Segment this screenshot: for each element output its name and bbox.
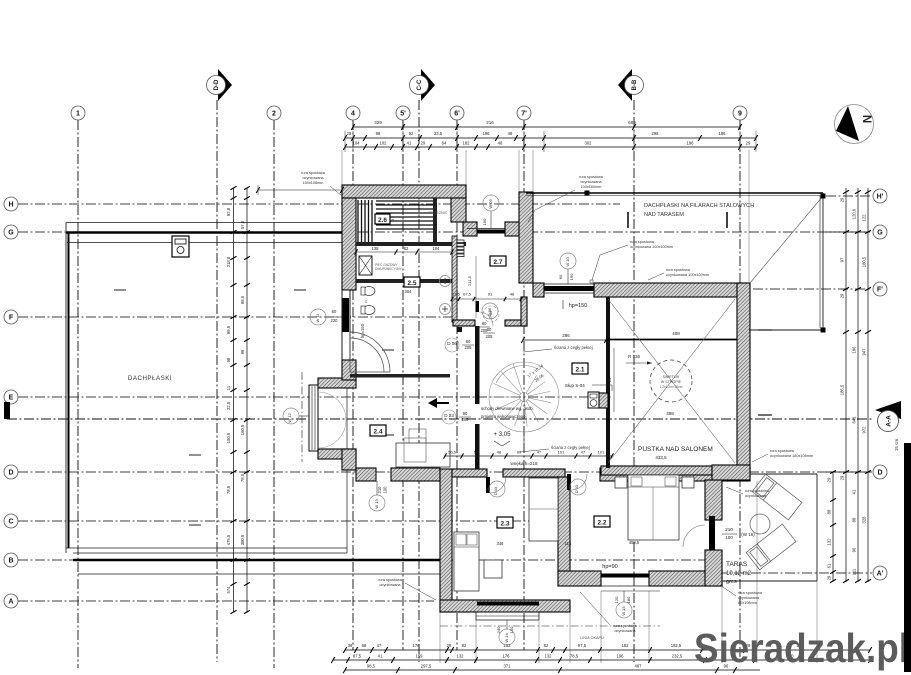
window tag W10 [560,253,576,269]
door leaf 2.2 [567,474,571,490]
svg-text:296: 296 [562,333,570,338]
svg-text:60: 60 [332,309,337,314]
svg-text:Sieradzak.pl: Sieradzak.pl [694,625,909,671]
svg-text:150,5: 150,5 [226,432,231,443]
room 2.2 label box [594,516,610,527]
svg-text:LINIA OKAPU: LINIA OKAPU [580,636,604,640]
svg-text:487: 487 [635,664,643,669]
room 2.7 dims [452,298,527,300]
shower south partition [437,242,466,246]
nightstand 2.3 [484,560,502,578]
svg-text:29: 29 [421,141,426,146]
section marker B-B [618,69,632,101]
svg-text:132: 132 [827,538,832,546]
svg-text:88: 88 [827,509,832,514]
svg-text:rura spustowa: rura spustowa [579,175,604,179]
svg-text:220: 220 [331,318,339,323]
svg-text:NAD TARASEM: NAD TARASEM [644,212,684,218]
svg-text:159: 159 [416,654,424,659]
svg-text:B-B: B-B [632,79,638,90]
roof chimney [172,236,189,257]
svg-text:2.2: 2.2 [597,520,606,527]
svg-text:196: 196 [617,654,625,659]
svg-text:433,5: 433,5 [655,455,667,460]
svg-text:120: 120 [614,596,619,603]
svg-text:122: 122 [862,214,867,222]
wall 2.7 north-east piece [505,222,519,236]
svg-text:196: 196 [719,131,727,136]
svg-text:205: 205 [465,345,473,350]
sauna 2.6 label box [375,214,390,224]
svg-text:101: 101 [558,450,565,455]
bay window 2.4 [309,385,318,451]
svg-text:wnęka h=218: wnęka h=218 [511,461,538,466]
svg-text:210: 210 [725,527,733,532]
room 2.7 label box [490,256,506,266]
room 2.5 label box [404,277,420,287]
door D03 tag 2.3 [489,481,505,497]
svg-text:2.1: 2.1 [575,367,584,374]
svg-text:328: 328 [862,516,867,524]
svg-text:205: 205 [486,334,494,339]
wall 2.4 north [318,378,356,388]
svg-text:D 06: D 06 [487,307,492,316]
door arc terrace [683,525,705,547]
axis H horizontal line [18,203,620,205]
svg-text:ocynkowana: ocynkowana [302,176,324,180]
svg-text:D: D [877,470,882,477]
svg-text:132: 132 [545,654,553,659]
svg-text:W 10: W 10 [565,257,570,267]
window W09 black bar [467,228,515,230]
svg-text:41: 41 [378,654,383,659]
svg-text:150x108mm: 150x108mm [303,181,324,185]
svg-text:78,5: 78,5 [570,654,579,659]
hall west wall [475,326,480,404]
svg-text:641: 641 [852,416,857,424]
svg-text:475,5: 475,5 [226,534,231,545]
extension lines bottom to chains [439,612,441,663]
sauna 2.6 bench slats vertical [357,200,359,242]
svg-text:458,5: 458,5 [629,540,640,545]
axis 1 vertical line [77,120,79,668]
axis H&#39; right circle [873,189,887,203]
axis F&#39; right line [753,288,872,290]
svg-text:210: 210 [377,486,382,494]
svg-text:29: 29 [347,131,352,136]
svg-text:57,8: 57,8 [240,220,245,229]
room 2.3 label box [497,517,513,528]
window bay 2.3 south [477,602,539,606]
svg-text:296: 296 [652,131,660,136]
svg-text:11: 11 [226,385,231,390]
extension lines top from building [341,150,343,185]
pustka west wall [606,297,610,468]
svg-text:48: 48 [510,292,515,297]
svg-text:90: 90 [517,450,522,455]
axis 4 vertical line [352,120,354,650]
svg-text:ŚWIETLIK: ŚWIETLIK [663,374,680,379]
svg-text:92,8: 92,8 [226,207,231,216]
svg-text:F: F [9,315,14,322]
pustka skylight dashed circle [650,360,692,402]
svg-text:G: G [8,230,14,237]
svg-text:9: 9 [738,111,742,118]
terrace lounge chair 2 [746,524,796,570]
terrace round table [750,514,770,534]
terrace north-west corner wall [712,465,750,480]
room 2.1 label box [572,363,588,374]
window tag W14 [499,629,515,645]
entry arrow [428,398,449,408]
dim 66 small [613,348,615,412]
wall south of 2.4 with door [356,468,376,481]
room 2.4 dresser [396,443,450,467]
svg-text:ocynkowana 100x100mm: ocynkowana 100x100mm [666,273,709,277]
axis 1 circle [71,106,85,120]
svg-text:2.7: 2.7 [493,259,502,266]
svg-text:180,5: 180,5 [862,256,867,267]
left dimension chain [233,188,235,612]
svg-text:(W 16): (W 16) [741,532,755,537]
svg-text:D 03: D 03 [575,485,579,493]
axis E horizontal line [18,396,612,398]
axis 2 vertical line [273,120,275,668]
wall west with window W11 [342,290,350,362]
terrace outline [750,473,817,475]
svg-text:87,5: 87,5 [353,654,362,659]
bottom dimension chain row2 [333,659,870,661]
wall along F-prime west piece [533,283,544,297]
furnace with X [359,256,372,275]
svg-text:5': 5' [400,111,406,118]
svg-text:190: 190 [482,218,487,225]
svg-text:29: 29 [827,575,832,580]
section marker D-D [218,69,232,101]
svg-text:hp=150: hp=150 [569,303,588,309]
axis F circle [4,310,18,324]
svg-text:W 09: W 09 [488,199,493,209]
svg-text:PUSTKA NAD SALONEM: PUSTKA NAD SALONEM [638,446,713,453]
right dimension chains [845,188,847,582]
axis 9 circle [733,106,747,120]
svg-text:380,5: 380,5 [240,534,245,545]
svg-text:574: 574 [226,586,231,594]
axis B circle [4,553,18,567]
svg-text:41: 41 [852,489,857,494]
wall piece east of north wall [451,198,466,222]
svg-text:rura spustowa: rura spustowa [738,591,763,595]
east partition of 2.5 zone [452,236,457,322]
door leaf 2.3 [486,477,490,493]
wall 2.3 west [440,469,452,612]
axis G right line [826,231,872,233]
svg-text:205: 205 [462,417,470,422]
svg-text:132: 132 [457,654,465,659]
svg-text:689: 689 [628,120,636,125]
top dimension chain row2 [345,137,756,139]
svg-text:ocynkowana 100x100mm: ocynkowana 100x100mm [630,245,673,249]
small black block below wall [457,327,462,332]
axis A&#39; right line [700,572,872,574]
black bar right edge [904,443,911,672]
eaves line bottom [440,625,660,627]
svg-text:rura spustowa: rura spustowa [613,624,638,628]
section marker C-C [421,69,435,101]
axis A circle [4,594,18,608]
svg-text:216: 216 [486,120,494,125]
room 2.4 label box [370,425,386,436]
wall west of hall south [342,449,356,470]
section marker A-A arrow [875,401,901,419]
bottom dimension chain row1 [345,649,870,651]
svg-text:104: 104 [433,246,441,251]
svg-text:33,5: 33,5 [434,131,443,136]
axis G horizontal line [18,231,868,233]
window tag W09 [483,195,499,211]
svg-text:64: 64 [442,141,447,146]
svg-text:29: 29 [840,197,845,202]
door leaf D06 [476,301,480,312]
radiator circles with plus [440,276,451,287]
svg-text:101: 101 [474,450,481,455]
svg-text:B: B [8,558,13,565]
svg-text:160,5: 160,5 [240,424,245,435]
washing machine and column [588,392,599,408]
svg-text:2.5: 2.5 [407,280,416,287]
pustka north line [606,339,737,341]
terrace lounge chair 1 [752,474,802,520]
svg-text:196: 196 [687,141,695,146]
axis D circle [4,465,18,479]
svg-text:182,5: 182,5 [671,643,682,648]
corner bathtub [350,332,390,372]
roof pillar marks [585,191,590,196]
spiral stair [489,362,559,432]
svg-text:947: 947 [862,348,867,356]
svg-text:176: 176 [503,654,511,659]
axis A&#39; right circle [873,566,887,580]
svg-text:371: 371 [504,664,512,669]
wall 2.3 north east piece [503,469,565,477]
svg-text:11,5: 11,5 [452,292,460,297]
axis 7&#39; vertical line [523,120,525,650]
svg-text:61: 61 [827,563,832,568]
svg-text:408: 408 [672,331,680,336]
radiator ladder [457,240,464,243]
svg-text:100: 100 [383,486,388,494]
axis H circle [4,197,18,211]
svg-text:97,5: 97,5 [578,643,587,648]
axis F&#39; right circle [873,282,887,296]
window W16 black bar [709,516,715,550]
axis 2 circle [267,106,281,120]
wall 2.2 south east piece [649,571,722,586]
svg-text:rura spustowa: rura spustowa [666,268,691,272]
axis 6&#39; circle [450,106,464,120]
svg-text:99,5: 99,5 [226,325,231,334]
svg-text:138: 138 [372,246,380,251]
wall east of pustka [737,283,750,470]
wall south of hall east piece [391,468,440,481]
svg-text:29: 29 [827,477,832,482]
roof slope tick marks [189,454,201,456]
top dimension chain row3 [345,146,756,148]
svg-text:C: C [8,519,13,526]
svg-text:+ 3,05: + 3,05 [494,432,512,438]
terrace west wall [705,480,722,520]
svg-text:67,5: 67,5 [463,292,472,297]
svg-text:120,6: 120,6 [852,208,857,219]
door tag D06 stairs [482,303,498,319]
svg-text:22,5: 22,5 [226,401,231,410]
pustka dim 408 [610,339,737,341]
bath room partition south [350,374,450,378]
flat roof outline [66,222,345,224]
wall west above bay [342,360,356,380]
wall 2.2 south west piece [558,571,601,586]
section line C-C [418,100,420,662]
dim 296 left of pustka [523,339,606,341]
svg-text:2.6: 2.6 [378,217,387,224]
svg-text:29: 29 [840,475,845,480]
svg-text:91: 91 [488,292,493,297]
svg-text:F': F' [877,287,883,294]
pustka dim 388 [610,417,735,419]
bed 2.3 [454,532,479,591]
partition below corridor [356,279,452,283]
room 2.4 wardrobe dashed [409,429,426,449]
svg-text:1: 1 [76,111,80,118]
svg-text:hp=90: hp=90 [602,564,617,570]
wall band below W10 corner [521,297,527,326]
svg-text:A': A' [877,571,884,578]
svg-text:48: 48 [508,131,513,136]
door D03 tag 2.2 [570,479,586,495]
svg-text:ocynkowana: ocynkowana [738,596,760,600]
axis A horizontal line [18,600,434,602]
axis 4 circle [346,106,360,120]
svg-text:104: 104 [353,141,361,146]
axis D right circle [873,465,887,479]
svg-text:H': H' [877,194,884,201]
svg-text:schody drewniane wg. osob.: schody drewniane wg. osob. [481,406,534,411]
sauna south wall partition [356,242,438,246]
bidet [363,306,375,315]
pustka cross diagonal 1 [608,299,735,463]
svg-text:102: 102 [380,141,388,146]
roof over terrace diagonal [750,196,823,283]
svg-text:rura spustowa: rura spustowa [630,240,655,244]
svg-text:115: 115 [565,541,572,546]
section line D-D [216,100,218,662]
svg-text:DWUFUNKCYJNY: DWUFUNKCYJNY [375,267,403,271]
axis H&#39; right line [826,195,872,197]
window W12 tag [283,408,299,424]
svg-text:DACHPŁASKI NA FILARACH STALOWY: DACHPŁASKI NA FILARACH STALOWYCH [644,203,754,209]
door 210 gap lines [375,470,377,481]
svg-text:47: 47 [581,450,586,455]
north arrow [835,105,874,144]
svg-text:15 cm: 15 cm [894,439,899,452]
svg-text:rura spustowa: rura spustowa [378,578,403,582]
svg-text:TARAS: TARAS [726,561,748,568]
svg-text:186,5: 186,5 [840,384,845,395]
toilet [363,287,375,296]
svg-text:6': 6' [454,111,460,118]
interior dim row near 2.3 [445,455,612,457]
svg-text:E: E [9,395,14,402]
wall below bay [318,449,356,459]
svg-text:346: 346 [497,541,505,546]
svg-text:W 15: W 15 [621,606,626,616]
svg-text:C-C: C-C [417,79,423,90]
wall 2.2 north piece [601,466,712,475]
svg-text:150: 150 [509,626,514,633]
wall south of 2.5 zone west piece [453,320,475,326]
svg-text:100x100mm: 100x100mm [581,185,602,189]
svg-text:180: 180 [626,596,631,603]
svg-text:H: H [8,202,13,209]
axis 7&#39; circle [517,106,531,120]
eaves line left of bay [301,372,303,462]
window tag W15 [616,602,632,618]
svg-text:D: D [8,470,13,477]
svg-text:29: 29 [746,141,751,146]
axis 5&#39; circle [396,106,410,120]
wall north of sauna block [342,185,466,198]
svg-text:92: 92 [409,131,414,136]
svg-text:7': 7' [521,111,527,118]
svg-text:100: 100 [725,535,733,540]
svg-text:41: 41 [407,141,412,146]
svg-text:D 03: D 03 [444,413,454,418]
svg-text:205: 205 [481,328,489,333]
axis C circle [4,514,18,528]
svg-text:101: 101 [598,450,605,455]
svg-text:29: 29 [840,293,845,298]
svg-text:PRYSZNIC: PRYSZNIC [428,211,447,215]
svg-text:218,8: 218,8 [226,256,231,267]
svg-text:2.4: 2.4 [373,429,382,436]
window tag W13 [369,495,385,511]
svg-text:rura spustowa: rura spustowa [770,449,795,453]
axis F horizontal line [18,316,460,318]
svg-text:972: 972 [862,426,867,434]
svg-text:DACHPŁASKI: DACHPŁASKI [128,375,172,382]
svg-text:82: 82 [544,643,549,648]
svg-text:W 12: W 12 [287,413,292,423]
svg-text:98: 98 [376,131,381,136]
svg-text:W 11: W 11 [315,313,320,323]
svg-text:2: 2 [272,111,276,118]
wall 2.3 south [440,600,570,612]
svg-text:rura spustowa: rura spustowa [301,171,326,175]
interior dim row 138-82-104 [356,251,452,253]
svg-text:4: 4 [351,111,355,118]
svg-text:182: 182 [463,141,471,146]
window bay 2.2 south [601,574,649,578]
stair arrow [523,434,525,452]
svg-text:78,5: 78,5 [240,473,245,482]
svg-text:47: 47 [537,450,542,455]
svg-text:98,5: 98,5 [367,664,376,669]
svg-text:gres: gres [726,579,737,585]
svg-text:297,5: 297,5 [421,664,432,669]
svg-text:388: 388 [666,411,674,416]
svg-text:80: 80 [466,339,471,344]
svg-text:182: 182 [622,643,630,648]
